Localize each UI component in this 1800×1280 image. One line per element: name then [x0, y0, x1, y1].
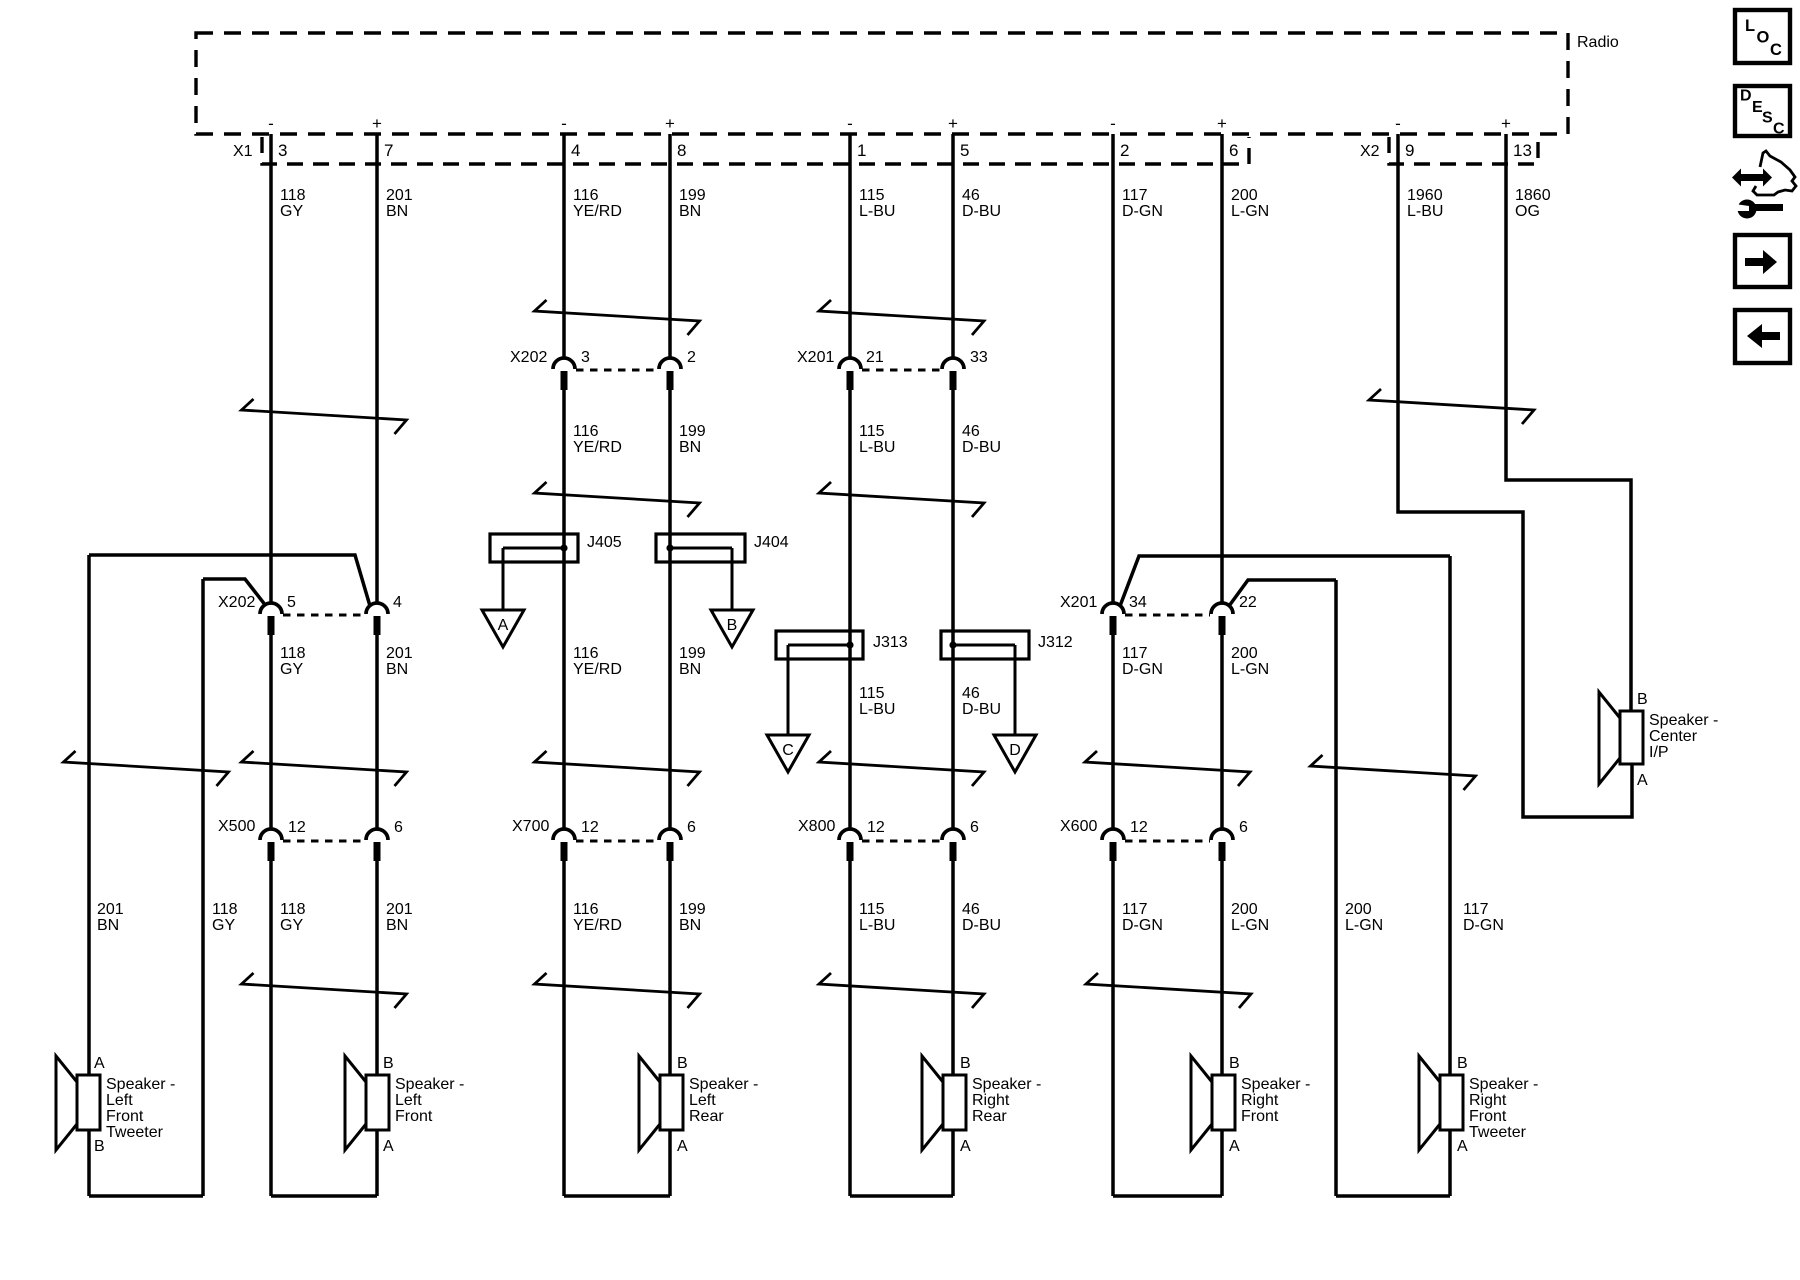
svg-text:I/P: I/P: [1649, 744, 1669, 761]
wire label 116 YE/RD row3: [573, 645, 622, 678]
svg-text:199: 199: [679, 645, 706, 662]
wire label 116 YE/RD row2: [573, 423, 622, 456]
connector terminal X202 pin 2: [659, 358, 681, 390]
wire 118 GY col1: [269, 134, 273, 1196]
wire 199 BN col4: [668, 134, 672, 1196]
wire label 117 D-GN row1: [1122, 187, 1163, 220]
svg-text:117: 117: [1122, 901, 1148, 918]
svg-text:X201: X201: [797, 349, 834, 366]
wire label 201 BN row4: [97, 901, 124, 934]
svg-text:-: -: [847, 114, 853, 133]
ground reference triangle B: [711, 610, 753, 647]
connector link X202 5-4: [283, 614, 365, 617]
svg-text:YE/RD: YE/RD: [573, 917, 622, 934]
wire label 200 L-GN row4: [1231, 901, 1269, 934]
wire label 201 BN row1: [386, 187, 413, 220]
wire 1860 OG col10: [1506, 134, 1631, 711]
connector terminal X700 pin 12: [553, 829, 575, 861]
connector terminal X600 pin 6: [1211, 829, 1233, 861]
svg-text:118: 118: [280, 901, 306, 918]
svg-text:Right: Right: [1469, 1092, 1507, 1109]
svg-text:117: 117: [1463, 901, 1489, 918]
wire tweeter-right A loop: [1448, 1130, 1452, 1196]
wire label 200 L-GN row4: [1345, 901, 1383, 934]
svg-text:Rear: Rear: [972, 1108, 1007, 1125]
svg-text:21: 21: [866, 349, 884, 366]
svg-text:Speaker -: Speaker -: [395, 1076, 464, 1093]
wire label 118 GY row4: [280, 901, 306, 934]
svg-text:D: D: [1740, 88, 1752, 105]
connector terminal X202 pin 4: [366, 603, 388, 635]
svg-text:3: 3: [581, 349, 590, 366]
label text Right Front: [1241, 1076, 1310, 1125]
svg-text:9: 9: [1405, 141, 1414, 160]
svg-text:L-BU: L-BU: [859, 439, 895, 456]
ground reference triangle A: [482, 610, 524, 647]
svg-text:12: 12: [288, 819, 306, 836]
svg-text:12: 12: [1130, 819, 1148, 836]
svg-text:2: 2: [687, 349, 696, 366]
wire left-rear bottom loop: [564, 1194, 670, 1198]
svg-text:L-BU: L-BU: [859, 701, 895, 718]
svg-text:D-BU: D-BU: [962, 203, 1001, 220]
svg-text:L-BU: L-BU: [859, 203, 895, 220]
wire label 115 L-BU row1: [859, 187, 895, 220]
svg-text:1: 1: [857, 141, 866, 160]
wire 46 D-BU col6: [951, 134, 955, 1196]
connector link X202 3-2: [576, 369, 658, 372]
svg-text:A: A: [94, 1055, 105, 1072]
ground reference triangle C: [767, 735, 809, 772]
speaker Right Rear: [922, 1056, 966, 1150]
svg-text:46: 46: [962, 187, 980, 204]
svg-text:4: 4: [571, 141, 580, 160]
svg-text:Left: Left: [106, 1092, 133, 1109]
wire label 200 L-GN row1: [1231, 187, 1269, 220]
label text Right Rear: [972, 1076, 1041, 1125]
svg-text:B: B: [727, 617, 738, 634]
svg-text:L-GN: L-GN: [1345, 917, 1383, 934]
svg-text:Front: Front: [1241, 1108, 1279, 1125]
splice J404: [656, 534, 745, 610]
wire label 115 L-BU row3b: [859, 685, 895, 718]
twisted pair symbol cols5-6 row1: [819, 300, 984, 335]
twisted pair symbol tweeterL: [64, 751, 229, 786]
svg-text:6: 6: [1239, 819, 1248, 836]
speaker Right Front Tweeter: [1419, 1056, 1463, 1150]
svg-text:1860: 1860: [1515, 187, 1551, 204]
svg-text:199: 199: [679, 901, 706, 918]
speaker Left Front Tweeter: [56, 1056, 100, 1150]
svg-text:X202: X202: [510, 349, 547, 366]
svg-text:+: +: [948, 114, 958, 133]
svg-text:OG: OG: [1515, 203, 1540, 220]
svg-text:BN: BN: [679, 661, 701, 678]
svg-text:B: B: [383, 1055, 394, 1072]
svg-text:X201: X201: [1060, 594, 1097, 611]
svg-text:YE/RD: YE/RD: [573, 439, 622, 456]
wire label 1960 L-BU row1: [1407, 187, 1443, 220]
svg-text:B: B: [94, 1138, 105, 1155]
svg-text:B: B: [1229, 1055, 1240, 1072]
svg-text:46: 46: [962, 685, 980, 702]
svg-text:D-BU: D-BU: [962, 701, 1001, 718]
svg-text:GY: GY: [280, 661, 303, 678]
svg-text:Left: Left: [689, 1092, 716, 1109]
svg-text:7: 7: [384, 141, 393, 160]
speaker Center I/P: [1599, 692, 1643, 784]
speaker Left Front: [345, 1056, 389, 1150]
svg-text:BN: BN: [679, 203, 701, 220]
connector link X201 34-22: [1125, 614, 1210, 617]
wire branch 118 GY to X202 pin 5: [203, 579, 266, 606]
twisted pair symbol cols5-6 row4: [819, 973, 984, 1008]
svg-text:BN: BN: [679, 917, 701, 934]
connector X1 (dashed box): [262, 137, 1249, 164]
connector terminal X201 pin 34: [1102, 603, 1124, 635]
svg-text:200: 200: [1231, 187, 1258, 204]
svg-text:GY: GY: [280, 917, 303, 934]
wire label 199 BN row3: [679, 645, 706, 678]
svg-text:116: 116: [573, 901, 599, 918]
wire 200 L-GN col8: [1220, 134, 1224, 1196]
connector terminal X500 pin 6: [366, 829, 388, 861]
wire right-rear bottom loop: [850, 1194, 953, 1198]
svg-text:Front: Front: [1469, 1108, 1507, 1125]
svg-text:Rear: Rear: [689, 1108, 724, 1125]
wire label 199 BN row4: [679, 901, 706, 934]
speaker Right Front: [1191, 1056, 1235, 1150]
svg-text:Speaker -: Speaker -: [106, 1076, 175, 1093]
svg-text:46: 46: [962, 423, 980, 440]
wire label 117 D-GN row4: [1463, 901, 1504, 934]
svg-text:115: 115: [859, 423, 885, 440]
svg-text:B: B: [960, 1055, 971, 1072]
wire branch 117 D-GN from X201 pin 34: [1120, 556, 1450, 606]
svg-text:116: 116: [573, 187, 599, 204]
label text Center I/P: [1649, 712, 1718, 761]
wire label 115 L-BU row4: [859, 901, 895, 934]
svg-text:Speaker -: Speaker -: [1241, 1076, 1310, 1093]
wire 117 D-GN tweeter-right feed: [1448, 556, 1452, 1075]
wire 200 L-GN tweeter-right return: [1334, 580, 1338, 1196]
twisted pair symbol cols5-6 row3: [819, 751, 984, 786]
svg-text:Radio: Radio: [1577, 34, 1619, 51]
svg-text:YE/RD: YE/RD: [573, 661, 622, 678]
svg-text:YE/RD: YE/RD: [573, 203, 622, 220]
svg-text:D-GN: D-GN: [1463, 917, 1504, 934]
svg-text:GY: GY: [212, 917, 235, 934]
twisted pair symbol cols3-4 row1: [535, 300, 700, 335]
twisted pair symbol cols1-2 row4: [242, 973, 407, 1008]
label text Left Rear: [689, 1076, 758, 1125]
connector link X500 12-6: [283, 840, 365, 843]
svg-text:-: -: [1110, 114, 1116, 133]
svg-text:BN: BN: [679, 439, 701, 456]
svg-text:B: B: [677, 1055, 688, 1072]
svg-text:1960: 1960: [1407, 187, 1443, 204]
svg-text:L-BU: L-BU: [1407, 203, 1443, 220]
svg-text:X1: X1: [233, 143, 253, 160]
splice J313: [776, 631, 863, 735]
svg-text:X700: X700: [512, 818, 549, 835]
wire 115 L-BU col5: [848, 134, 852, 1196]
svg-text:A: A: [1457, 1138, 1468, 1155]
connector terminal X201 pin 21: [839, 358, 861, 390]
ground reference triangle D: [994, 735, 1036, 772]
twisted pair symbol cols7-8 row3: [1085, 751, 1250, 786]
svg-text:Speaker -: Speaker -: [1469, 1076, 1538, 1093]
svg-text:D-GN: D-GN: [1122, 917, 1163, 934]
twisted pair symbol tweeterR: [1311, 755, 1476, 790]
svg-text:Speaker -: Speaker -: [689, 1076, 758, 1093]
svg-text:199: 199: [679, 187, 706, 204]
svg-text:C: C: [1773, 121, 1785, 138]
svg-text:L-GN: L-GN: [1231, 203, 1269, 220]
svg-text:GY: GY: [280, 203, 303, 220]
wire right-front bottom loop: [1113, 1194, 1222, 1198]
connector terminal X500 pin 12: [260, 829, 282, 861]
svg-text:O: O: [1757, 29, 1770, 47]
connector terminal X201 pin 33: [942, 358, 964, 390]
wire label 46 D-BU row4: [962, 901, 1001, 934]
svg-text:J312: J312: [1038, 634, 1073, 651]
svg-text:+: +: [1501, 114, 1511, 133]
svg-text:A: A: [677, 1138, 688, 1155]
svg-text:12: 12: [581, 819, 599, 836]
wire 117 D-GN col7: [1111, 134, 1115, 1196]
twisted pair symbol cols1-2 row3: [242, 751, 407, 786]
svg-text:Right: Right: [1241, 1092, 1279, 1109]
svg-text:S: S: [1762, 110, 1773, 127]
svg-text:34: 34: [1129, 594, 1147, 611]
svg-text:201: 201: [386, 187, 413, 204]
svg-text:118: 118: [212, 901, 238, 918]
svg-text:4: 4: [393, 594, 402, 611]
svg-text:Tweeter: Tweeter: [106, 1124, 164, 1141]
twisted pair symbol cols3-4 row4: [535, 973, 700, 1008]
svg-text:+: +: [665, 114, 675, 133]
wire label 118 GY row4: [212, 901, 238, 934]
wire branch 201 BN to X202 pin 4: [89, 555, 370, 606]
svg-text:118: 118: [280, 187, 306, 204]
svg-text:C: C: [1770, 41, 1782, 59]
svg-text:118: 118: [280, 645, 306, 662]
svg-text:6: 6: [394, 819, 403, 836]
svg-text:B: B: [1457, 1055, 1468, 1072]
icon adjust (double arrow, outline, wrench): [1732, 151, 1796, 219]
svg-text:J313: J313: [873, 634, 908, 651]
svg-text:D-GN: D-GN: [1122, 661, 1163, 678]
label text Left Front: [395, 1076, 464, 1125]
svg-text:201: 201: [386, 645, 413, 662]
svg-text:Front: Front: [395, 1108, 433, 1125]
svg-text:BN: BN: [97, 917, 119, 934]
svg-text:201: 201: [97, 901, 124, 918]
svg-text:201: 201: [386, 901, 413, 918]
svg-text:L-GN: L-GN: [1231, 917, 1269, 934]
svg-text:115: 115: [859, 685, 885, 702]
svg-text:200: 200: [1345, 901, 1372, 918]
wire label 200 L-GN row3: [1231, 645, 1269, 678]
icon box DESC: [1735, 86, 1790, 138]
svg-text:A: A: [383, 1138, 394, 1155]
svg-text:12: 12: [867, 819, 885, 836]
connector link X600 12-6: [1125, 840, 1210, 843]
wire tweeter-right bottom: [1336, 1194, 1450, 1198]
wire label 116 YE/RD row4: [573, 901, 622, 934]
svg-text:8: 8: [677, 141, 686, 160]
wire 1960 L-BU col9: [1398, 134, 1632, 817]
svg-text:199: 199: [679, 423, 706, 440]
connector terminal X700 pin 6: [659, 829, 681, 861]
twisted pair symbol cols9-10: [1369, 389, 1534, 424]
svg-text:X600: X600: [1060, 818, 1097, 835]
twisted pair symbol cols3-4 row2: [535, 482, 700, 517]
connector link X201 21-33: [862, 369, 941, 372]
icon box arrow right: [1735, 235, 1790, 287]
splice J405: [490, 534, 578, 610]
svg-text:33: 33: [970, 349, 988, 366]
svg-text:D: D: [1009, 742, 1021, 759]
svg-text:117: 117: [1122, 187, 1148, 204]
icon box LOC: [1735, 10, 1790, 63]
svg-text:6: 6: [970, 819, 979, 836]
svg-text:115: 115: [859, 187, 885, 204]
svg-text:A: A: [1229, 1138, 1240, 1155]
svg-text:D-GN: D-GN: [1122, 203, 1163, 220]
svg-text:D-BU: D-BU: [962, 439, 1001, 456]
twisted pair symbol cols3-4 row3: [535, 751, 700, 786]
wire tweeter-left bottom: [89, 1194, 203, 1198]
svg-text:J404: J404: [754, 534, 789, 551]
connector terminal X201 pin 22: [1211, 603, 1233, 635]
svg-text:A: A: [498, 617, 509, 634]
icon box arrow left: [1735, 310, 1790, 363]
svg-text:B: B: [1637, 691, 1648, 708]
wire label 115 L-BU row2: [859, 423, 895, 456]
svg-text:6: 6: [1229, 141, 1238, 160]
connector X2 (dashed box): [1389, 137, 1538, 164]
svg-text:22: 22: [1239, 594, 1257, 611]
connector link X800 12-6: [862, 840, 941, 843]
wire label 117 D-GN row4: [1122, 901, 1163, 934]
wire label 117 D-GN row3: [1122, 645, 1163, 678]
svg-text:+: +: [372, 114, 382, 133]
svg-text:13: 13: [1513, 141, 1532, 160]
svg-text:200: 200: [1231, 901, 1258, 918]
svg-text:BN: BN: [386, 661, 408, 678]
svg-text:46: 46: [962, 901, 980, 918]
wire label 46 D-BU row3b: [962, 685, 1001, 718]
svg-text:D-BU: D-BU: [962, 917, 1001, 934]
wire label 199 BN row2: [679, 423, 706, 456]
label text Right Front Tweeter: [1469, 1076, 1538, 1141]
svg-text:A: A: [1637, 772, 1648, 789]
svg-text:J405: J405: [587, 534, 622, 551]
svg-text:6: 6: [687, 819, 696, 836]
svg-text:L-GN: L-GN: [1231, 661, 1269, 678]
wire branch 200 L-GN from X201 pin 22: [1229, 580, 1336, 606]
connector terminal X800 pin 12: [839, 829, 861, 861]
svg-text:Speaker -: Speaker -: [972, 1076, 1041, 1093]
wire label 201 BN row4: [386, 901, 413, 934]
wire label 46 D-BU row2: [962, 423, 1001, 456]
wire 116 YE/RD col3: [562, 134, 566, 1196]
wire 118 GY tweeter-left return: [201, 579, 205, 1196]
svg-text:C: C: [782, 742, 794, 759]
svg-text:Front: Front: [106, 1108, 144, 1125]
splice J312: [941, 631, 1029, 735]
svg-text:-: -: [561, 114, 567, 133]
svg-text:115: 115: [859, 901, 885, 918]
speaker Left Rear: [639, 1056, 683, 1150]
svg-text:X2: X2: [1360, 143, 1380, 160]
svg-text:X202: X202: [218, 594, 255, 611]
svg-text:A: A: [960, 1138, 971, 1155]
twisted pair symbol cols7-8 row4: [1086, 973, 1251, 1008]
svg-text:Tweeter: Tweeter: [1469, 1124, 1527, 1141]
wire label 116 YE/RD row1: [573, 187, 622, 220]
svg-text:2: 2: [1120, 141, 1129, 160]
svg-text:Speaker -: Speaker -: [1649, 712, 1718, 729]
connector link X700 12-6: [576, 840, 658, 843]
wire tweeter-left B loop: [87, 1130, 91, 1196]
twisted pair symbol cols5-6 row2: [819, 482, 984, 517]
connector terminal X202 pin 3: [553, 358, 575, 390]
wire label 1860 OG row1: [1515, 187, 1551, 220]
svg-text:Right: Right: [972, 1092, 1010, 1109]
radio (dashed outline box): [196, 33, 1568, 134]
wire 201 BN tweeter-left feed: [87, 555, 91, 1075]
wire label 201 BN row3: [386, 645, 413, 678]
wire 201 BN col2: [375, 134, 379, 1196]
svg-text:L: L: [1745, 17, 1755, 35]
svg-text:5: 5: [960, 141, 969, 160]
svg-text:BN: BN: [386, 203, 408, 220]
svg-text:116: 116: [573, 645, 599, 662]
svg-text:Left: Left: [395, 1092, 422, 1109]
wire label 199 BN row1: [679, 187, 706, 220]
svg-text:5: 5: [287, 594, 296, 611]
wire label 118 GY row3: [280, 645, 306, 678]
twisted pair symbol cols1-2: [242, 399, 407, 434]
svg-text:-: -: [268, 114, 274, 133]
connector terminal X600 pin 12: [1102, 829, 1124, 861]
svg-text:BN: BN: [386, 917, 408, 934]
svg-text:116: 116: [573, 423, 599, 440]
svg-text:X800: X800: [798, 818, 835, 835]
wire left-front bottom loop: [271, 1194, 377, 1198]
svg-text:3: 3: [278, 141, 287, 160]
svg-text:L-BU: L-BU: [859, 917, 895, 934]
svg-text:-: -: [1395, 114, 1401, 133]
label text Left Front Tweeter: [106, 1076, 175, 1141]
wire label 46 D-BU row1: [962, 187, 1001, 220]
svg-text:200: 200: [1231, 645, 1258, 662]
wire label 118 GY row1: [280, 187, 306, 220]
connector terminal X202 pin 5: [260, 603, 282, 635]
svg-text:+: +: [1217, 114, 1227, 133]
connector terminal X800 pin 6: [942, 829, 964, 861]
svg-text:117: 117: [1122, 645, 1148, 662]
svg-text:Center: Center: [1649, 728, 1698, 745]
svg-text:X500: X500: [218, 818, 255, 835]
